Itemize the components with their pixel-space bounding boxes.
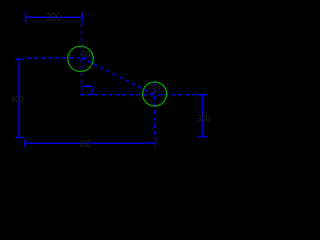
tick bottom of left dimension	[15, 136, 24, 138]
svg-text:600: 600	[80, 138, 91, 150]
step jog vertical segment	[91, 86, 93, 95]
tick right of top dimension	[81, 13, 83, 24]
dimension line 300 (right vertical)	[202, 95, 204, 137]
tick left of bottom dimension	[24, 140, 26, 148]
tick left of top dimension	[25, 12, 27, 23]
tick top of right dimension	[198, 94, 207, 96]
hole circle C2	[143, 82, 167, 106]
centerline vertical of hole C2	[154, 82, 156, 136]
svg-text:30: 30	[82, 49, 91, 60]
diagonal centerline between holes	[82, 58, 155, 95]
svg-text:30: 30	[151, 82, 160, 96]
centerline vertical of hole C1	[81, 24, 83, 96]
tick right of bottom dimension	[155, 137, 157, 147]
centerline horizontal of hole C2	[80, 94, 206, 96]
dimension line 300 (top horizontal)	[26, 16, 83, 18]
centerline horizontal of hole C1	[28, 57, 94, 59]
dimension line 600 (bottom horizontal)	[25, 142, 156, 144]
dimension line 400 (left vertical)	[18, 59, 20, 137]
hole circle C1	[68, 46, 93, 71]
tick bottom of right dimension	[198, 136, 207, 138]
svg-text:300: 300	[197, 114, 210, 125]
svg-text:300: 300	[46, 10, 61, 24]
tick top of left dimension	[15, 58, 24, 60]
svg-text:400: 400	[11, 95, 23, 104]
step jog horizontal segment	[82, 85, 93, 87]
